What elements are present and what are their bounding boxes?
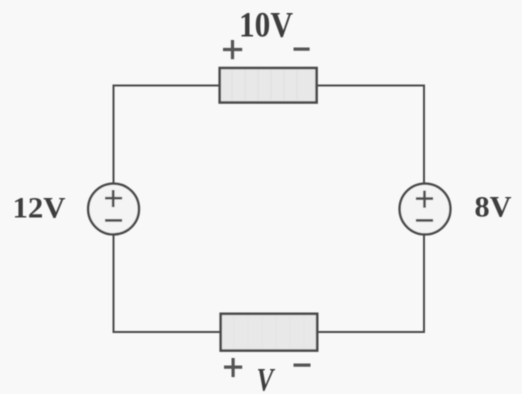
wire: right lower segment	[423, 235, 425, 333]
V2 minus mark	[416, 219, 433, 222]
wire: top side of loop	[114, 85, 425, 87]
polarity + (top resistor left)	[223, 40, 242, 59]
wire: left side of loop	[113, 85, 115, 184]
wire: right upper segment	[423, 85, 425, 184]
V1 plus mark	[105, 190, 122, 207]
svg-text:10V: 10V	[239, 5, 293, 45]
voltage source V2 (right, 8V)	[400, 184, 451, 235]
V2 plus mark	[416, 191, 433, 208]
polarity + (bottom resistor left)	[224, 358, 242, 377]
wire: left lower segment	[113, 235, 115, 333]
V1 minus mark	[105, 219, 122, 222]
svg-text:12V: 12V	[13, 191, 66, 224]
polarity - (top resistor right)	[294, 47, 310, 50]
resistor R2 (bottom element, V drop)	[221, 314, 318, 351]
resistor R1 (top element, 10V drop)	[220, 68, 317, 103]
svg-text:V: V	[257, 363, 276, 394]
svg-text:8V: 8V	[475, 191, 512, 223]
voltage source V1 (left, 12V)	[88, 184, 139, 235]
wire: bottom side of loop	[114, 331, 425, 333]
polarity - (bottom resistor right)	[294, 364, 311, 367]
